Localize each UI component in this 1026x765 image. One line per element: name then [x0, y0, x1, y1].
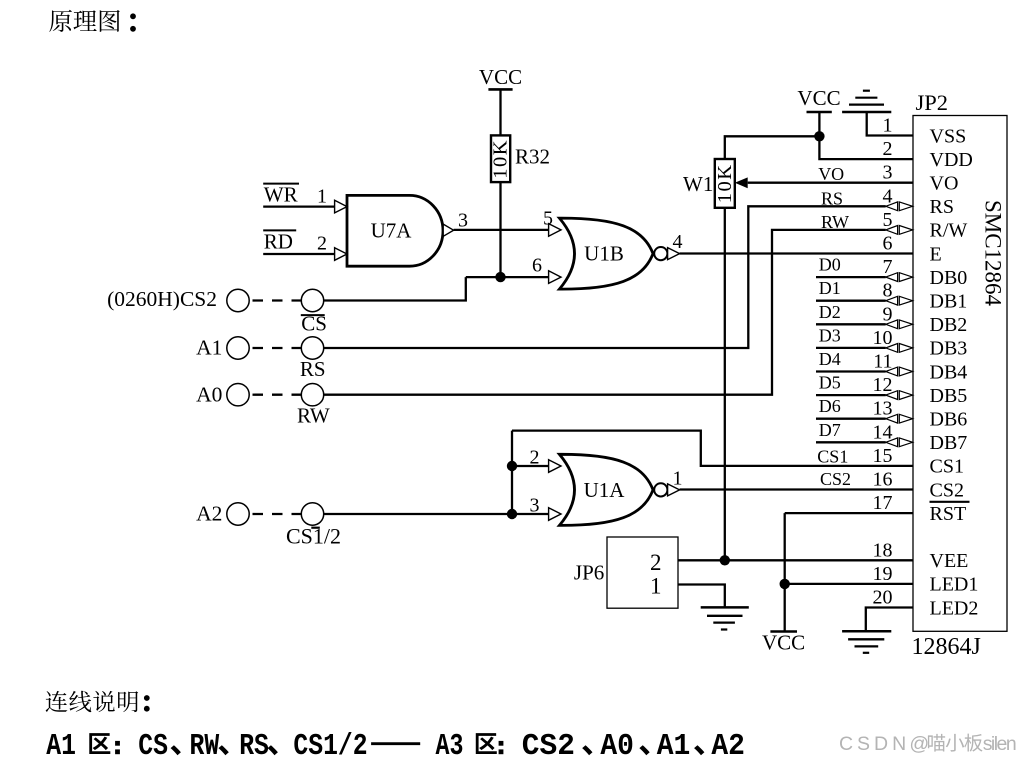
svg-text:W1: W1	[683, 172, 713, 196]
wire riser to top route	[511, 431, 513, 466]
svg-text:CS1: CS1	[930, 456, 964, 478]
svg-text:DB4: DB4	[930, 361, 968, 383]
svg-text:1: 1	[883, 115, 893, 137]
svg-text:WR: WR	[264, 183, 298, 207]
svg-text:SMC12864: SMC12864	[981, 200, 1006, 307]
pin triangle U7A pin 1	[335, 200, 347, 213]
wire VCC to VDD	[819, 112, 913, 159]
wire W1 bottom to VEE node	[724, 208, 726, 561]
svg-text:CS: CS	[301, 312, 327, 336]
svg-text:D1: D1	[819, 278, 841, 298]
svg-text:A1: A1	[46, 729, 76, 764]
connector JP6 box	[607, 537, 678, 608]
wire JP6 pin2 to JP2 VEE	[678, 559, 913, 561]
wire U1B pin4 to JP2 E	[680, 252, 913, 254]
svg-text:RST: RST	[930, 503, 967, 525]
svg-text:@: @	[909, 733, 929, 755]
svg-text:silen: silen	[983, 733, 1017, 755]
potentiometer W1 10K	[715, 159, 735, 208]
svg-text:DB5: DB5	[930, 385, 968, 407]
svg-text:1: 1	[650, 574, 662, 599]
svg-text:10K: 10K	[490, 139, 512, 179]
wire WR to U7A pin 1	[263, 205, 334, 207]
junction dot W1/VEE	[720, 555, 730, 565]
svg-text:D4: D4	[819, 349, 841, 369]
wire top route to CS1	[512, 431, 913, 466]
output bubble U1B	[654, 247, 667, 260]
wire A2 row to U1A pin 3	[324, 513, 549, 515]
svg-text:20: 20	[873, 587, 893, 609]
svg-text:A1: A1	[657, 729, 691, 764]
caption 连线说明：	[46, 691, 68, 712]
connector circles A2 row	[227, 503, 249, 525]
svg-text:RD: RD	[264, 230, 293, 254]
wire U7A pin3 to U1B pin5	[454, 229, 549, 231]
wire W1 wiper to JP2 VO	[748, 182, 913, 184]
wire riser U1A pin3 to pin2	[511, 466, 513, 514]
connector circles CS row	[227, 289, 249, 311]
wire VCC riser	[784, 513, 786, 631]
svg-text:10K: 10K	[714, 163, 736, 203]
svg-text:DB1: DB1	[930, 291, 968, 313]
svg-text:R32: R32	[515, 145, 550, 169]
JP2 pin 5 arrow	[886, 226, 898, 235]
net label CS overline	[301, 314, 325, 316]
output bubble U1A	[654, 483, 667, 496]
svg-text:D7: D7	[819, 420, 841, 440]
output triangle U1A pin 1	[668, 484, 680, 496]
svg-text:VCC: VCC	[797, 86, 840, 110]
output triangle U1B pin 4	[668, 248, 680, 260]
wire RD to U7A pin 2	[263, 253, 334, 255]
svg-text:CS2: CS2	[930, 479, 964, 501]
svg-text:2: 2	[317, 233, 327, 255]
svg-text:DB2: DB2	[930, 314, 968, 336]
svg-text:3: 3	[458, 210, 468, 232]
svg-text:A0: A0	[600, 729, 634, 764]
svg-text:CS: CS	[138, 729, 168, 764]
svg-text:18: 18	[873, 539, 893, 561]
svg-text:15: 15	[873, 445, 893, 467]
svg-text:U1B: U1B	[584, 242, 624, 266]
svg-text:DB7: DB7	[930, 432, 968, 454]
schematic title 原理图：	[49, 10, 72, 32]
svg-text:CS1: CS1	[817, 446, 848, 466]
svg-text:DB0: DB0	[930, 267, 968, 289]
pin triangle U7A pin 2	[335, 248, 347, 261]
svg-text:VEE: VEE	[930, 550, 969, 572]
svg-text:VDD: VDD	[930, 149, 973, 171]
svg-text:LED2: LED2	[930, 597, 979, 619]
power VCC (bottom)	[770, 630, 797, 633]
wire ground to VSS	[867, 112, 913, 136]
junction dot U1A pin3	[507, 509, 517, 519]
net label CS1/2 overline on 1	[311, 527, 320, 529]
svg-text:VCC: VCC	[762, 631, 805, 655]
pin triangle U1A pin 2	[549, 460, 561, 473]
svg-text:16: 16	[873, 469, 893, 491]
svg-text:CS2: CS2	[522, 729, 575, 764]
nor-gate U1B	[559, 218, 653, 289]
wire U1A pin2 stub	[512, 465, 549, 467]
wire RS row to JP2 RS	[324, 206, 886, 348]
wire JP2 RST to VCC riser	[785, 512, 913, 514]
wire RW row to JP2 R/W	[324, 230, 886, 395]
svg-text:A0: A0	[196, 382, 222, 406]
wiper arrow W1	[735, 177, 748, 188]
pin triangle U1B pin 5	[549, 224, 561, 237]
svg-text:1: 1	[673, 468, 683, 490]
svg-text:CS2: CS2	[820, 469, 851, 489]
connector JP2 box	[913, 116, 1007, 632]
svg-text:E: E	[930, 243, 942, 265]
svg-text:VO: VO	[930, 173, 959, 195]
svg-text:RS: RS	[821, 188, 843, 208]
resistor R32 10K	[491, 135, 510, 182]
wire LED1 to JP2	[785, 583, 913, 585]
wire JP2 LED2 to ground	[866, 608, 913, 632]
svg-text:D5: D5	[819, 373, 841, 393]
JP2 pin 4 arrow	[886, 202, 898, 211]
junction dot RST/LED1	[780, 579, 790, 589]
svg-text:D0: D0	[819, 255, 841, 275]
wire CS row to pin6 riser	[324, 277, 466, 300]
svg-text:D2: D2	[819, 302, 841, 322]
output triangle U7A pin 3	[443, 224, 453, 236]
svg-text:U1A: U1A	[584, 478, 626, 502]
ground (JP6)	[701, 606, 749, 609]
svg-text:JP2: JP2	[916, 90, 949, 115]
svg-text:3: 3	[530, 495, 540, 517]
wire VCC to R32	[499, 89, 501, 135]
junction dot R32/CS/pin6 node	[495, 272, 505, 282]
ground (LED2)	[842, 630, 891, 633]
svg-text:VSS: VSS	[930, 125, 967, 147]
svg-text:RW: RW	[190, 729, 220, 764]
svg-text:12864J: 12864J	[912, 634, 981, 660]
svg-text:14: 14	[873, 421, 893, 443]
pin triangle U1A pin 3	[549, 508, 561, 521]
svg-text:CS1/2: CS1/2	[286, 524, 341, 549]
svg-text:19: 19	[873, 563, 893, 585]
svg-text:VCC: VCC	[479, 65, 522, 89]
svg-text:D3: D3	[819, 325, 841, 345]
pin triangle U1B pin 6	[549, 271, 561, 284]
svg-text:DB6: DB6	[930, 409, 968, 431]
svg-text:6: 6	[532, 255, 542, 277]
svg-text:2: 2	[650, 550, 662, 575]
svg-text:VO: VO	[818, 164, 844, 184]
svg-text:D6: D6	[819, 396, 841, 416]
svg-text:U7A: U7A	[371, 219, 413, 243]
svg-text:DB3: DB3	[930, 338, 968, 360]
svg-text:A2: A2	[711, 729, 745, 764]
input RD overline	[263, 229, 296, 231]
wire JP6 pin1 to ground	[678, 585, 725, 608]
junction dot U1A pin2	[507, 461, 517, 471]
svg-text:2: 2	[530, 447, 540, 469]
svg-text:12: 12	[873, 374, 893, 396]
wire CS node to U1B pin 6	[466, 276, 549, 278]
svg-text:11: 11	[873, 351, 892, 373]
input WR overline	[263, 183, 299, 185]
svg-text:RS: RS	[300, 357, 326, 381]
svg-text:1: 1	[317, 186, 327, 208]
svg-text:17: 17	[873, 492, 893, 514]
connector circles RS row	[227, 337, 249, 359]
svg-text:JP6: JP6	[574, 561, 604, 585]
svg-text:3: 3	[883, 162, 893, 184]
nor-gate U1A	[559, 454, 653, 525]
and-gate U7A	[347, 195, 443, 266]
svg-text:CS1/2: CS1/2	[293, 729, 367, 764]
svg-text:LED1: LED1	[930, 574, 979, 596]
svg-text:2: 2	[883, 138, 893, 160]
svg-text:4: 4	[673, 231, 683, 253]
svg-text:6: 6	[883, 233, 893, 255]
svg-text:R/W: R/W	[930, 220, 968, 242]
svg-text:(0260H)CS2: (0260H)CS2	[107, 287, 217, 311]
svg-text:A3: A3	[436, 729, 464, 764]
wire W1 top to VCC node	[725, 136, 820, 159]
junction dot VCC/W1	[814, 131, 824, 141]
svg-text:RS: RS	[930, 196, 954, 218]
wire R32 to CS node	[499, 182, 501, 277]
svg-text:A2: A2	[196, 502, 222, 526]
svg-text:RW: RW	[821, 212, 849, 232]
connector circles RW row	[227, 384, 249, 406]
svg-text:13: 13	[873, 398, 893, 420]
svg-text:10: 10	[873, 327, 893, 349]
svg-text:RW: RW	[297, 404, 330, 428]
wire U1A pin1 to JP2 CS2	[680, 488, 913, 490]
ground (VSS, top)	[842, 111, 891, 114]
svg-text:RS: RS	[239, 729, 269, 764]
svg-text:A1: A1	[196, 336, 222, 360]
